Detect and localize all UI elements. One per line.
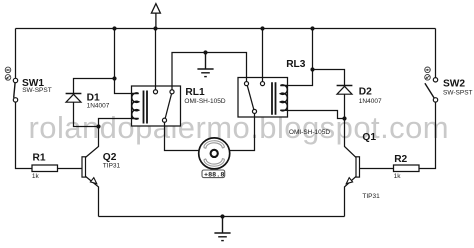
svg-text:Q2: Q2 — [103, 152, 117, 163]
node junction on bracket — [203, 50, 207, 54]
svg-text:Q1: Q1 — [362, 132, 376, 143]
node junction rail x=155.5 — [153, 26, 157, 30]
relay RL3 — [238, 59, 330, 136]
power symbol — [151, 4, 160, 29]
svg-text:1k: 1k — [32, 173, 40, 180]
svg-text:RL1: RL1 — [185, 87, 205, 98]
svg-text:R2: R2 — [394, 154, 407, 165]
wire rail to RL1 common contact — [155, 29, 157, 87]
wire top rail — [16, 28, 436, 30]
svg-text:SW-SPST: SW-SPST — [443, 89, 473, 96]
svg-text:1N4007: 1N4007 — [359, 98, 382, 105]
wire R1 to Q2 base — [58, 168, 83, 170]
svg-text:+88.8: +88.8 — [204, 171, 224, 179]
node junction rail x=114.5 — [112, 26, 116, 30]
node junction on rail drop to coil — [112, 76, 116, 80]
transistor Q2 — [82, 152, 121, 184]
svg-text:R1: R1 — [33, 152, 46, 163]
wire RL3 coil bottom pin to node — [288, 111, 345, 119]
node junction under D1/RL1 coil — [96, 124, 100, 128]
svg-text:1N4007: 1N4007 — [87, 103, 110, 110]
svg-text:D2: D2 — [359, 86, 372, 97]
diode D2 — [337, 86, 382, 105]
wire rail to RL1 coil top pin — [115, 29, 132, 94]
wire RL1 coil bottom pin to node — [99, 119, 132, 127]
wire left drop to SW1 — [15, 29, 17, 79]
wire branch to D2 cathode — [313, 70, 345, 86]
wire RL1 pole to motor left — [165, 126, 199, 151]
node junction bottom ground — [220, 214, 224, 218]
wire R2 to SW2 — [419, 102, 436, 168]
relay RL1 — [132, 86, 226, 126]
node junction at D2 branch — [310, 67, 314, 71]
node junction rail x=312.5 — [310, 26, 314, 30]
resistor R2 — [394, 154, 420, 180]
wire right drop to SW2 — [435, 29, 437, 78]
wire D2 anode to node — [344, 94, 346, 118]
wire D1 cathode up to node on rail drop — [74, 79, 115, 94]
wire Q2 emitter to bottom rail — [86, 176, 99, 216]
wire SW1 to R1 — [16, 102, 33, 168]
wire bottom rail — [99, 216, 345, 218]
ground (bottom) — [214, 217, 230, 241]
motor M1 — [199, 138, 230, 169]
switch SW2 — [425, 67, 473, 102]
wire rail drop to RL3 coil top pin — [288, 29, 313, 86]
svg-text:OMI-SH-105D: OMI-SH-105D — [289, 129, 330, 136]
wire node to D1 anode — [74, 102, 99, 126]
svg-text:OMI-SH-105D: OMI-SH-105D — [184, 98, 225, 105]
node junction rail x=262.5 — [260, 26, 264, 30]
svg-text:RL3: RL3 — [286, 59, 306, 70]
svg-text:TIP31: TIP31 — [103, 163, 121, 170]
svg-text:TIP31: TIP31 — [362, 193, 380, 200]
wire bracket RL1 NC to RL3 NO — [172, 53, 247, 87]
svg-text:1k: 1k — [394, 173, 402, 180]
svg-text:SW2: SW2 — [443, 79, 465, 90]
wire rail to RL3 NC contact — [262, 29, 264, 78]
transistor Q1 — [345, 132, 381, 217]
wire node to Q1 collector — [345, 119, 357, 158]
motor speed display — [202, 170, 225, 179]
resistor R1 — [32, 152, 58, 179]
diode D1 — [66, 92, 110, 109]
wire RL3 pole to motor right — [230, 117, 255, 151]
node junction above Q1 — [342, 116, 346, 120]
wire Q1 base to R2 — [360, 168, 394, 170]
wire Q2 collector to node — [86, 127, 99, 158]
switch SW1 — [5, 67, 52, 102]
ground (top) — [197, 53, 213, 77]
svg-text:SW-SPST: SW-SPST — [22, 87, 52, 94]
